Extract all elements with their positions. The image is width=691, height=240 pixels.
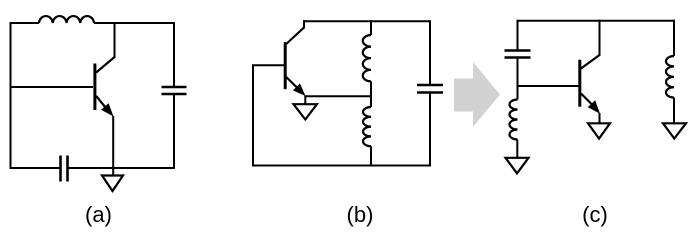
wire: circuit (a) left vertical xyxy=(10,23,12,168)
wire: circuit (b) right branch lower xyxy=(429,94,431,167)
capacitor C1 xyxy=(162,87,187,94)
wire: circuit (b) right branch upper xyxy=(429,20,431,84)
capacitor C2 xyxy=(61,156,68,182)
wire: circuit (c) left branch middle lead xyxy=(517,59,519,100)
inductor L3 (bottom half) xyxy=(363,107,371,146)
wire: circuit (a) top-right segment xyxy=(94,22,175,24)
ground (c) right xyxy=(663,123,686,138)
wire: circuit (a) collector vertical xyxy=(114,22,116,58)
wire: circuit (c) top wire xyxy=(518,20,676,22)
transform arrow xyxy=(454,62,500,127)
wire: circuit (a) right branch lower xyxy=(173,95,175,169)
capacitor C3 xyxy=(417,85,443,93)
wire: circuit (c) base wire xyxy=(517,85,579,87)
wire: circuit (b) inductor branch upper lead xyxy=(370,20,372,35)
ground (b) xyxy=(294,104,318,119)
svg-text:(c): (c) xyxy=(582,202,608,227)
wire: circuit (a) base wire xyxy=(10,86,94,88)
transistor Q2 xyxy=(285,28,305,97)
ground (c) emitter xyxy=(588,123,610,138)
wire: circuit (b) base wire xyxy=(252,64,284,66)
capacitor C4 xyxy=(505,51,531,58)
wire: circuit (a) bottom-right segment xyxy=(68,167,175,169)
wire: circuit (a) right branch upper xyxy=(173,22,175,86)
transistor Q3 xyxy=(580,55,600,114)
transistor Q1 xyxy=(95,57,115,117)
wire: circuit (b) left vertical xyxy=(252,65,254,167)
wire: circuit (c) collector vertical xyxy=(599,20,601,56)
svg-text:(b): (b) xyxy=(347,202,374,227)
wire: circuit (b) collector elbow xyxy=(303,20,305,28)
inductor L4 xyxy=(510,100,518,140)
wire: circuit (b) inductor centre lead xyxy=(370,81,372,107)
wire: circuit (b) emitter to ground stub xyxy=(304,96,306,105)
wire: circuit (b) inductor lower lead xyxy=(370,146,372,166)
wire: circuit (c) emitter stub xyxy=(599,113,601,124)
wire: circuit (c) right branch lower lead xyxy=(673,98,675,124)
inductor L5 xyxy=(666,56,674,98)
inductor L1 xyxy=(39,16,94,23)
inductor L2 (top half) xyxy=(363,35,371,81)
wire: circuit (b) top wire xyxy=(303,20,431,22)
wire: circuit (a) emitter vertical xyxy=(112,116,114,176)
wire: circuit (a) bottom-left segment xyxy=(10,167,61,169)
wire: circuit (c) left branch upper lead xyxy=(517,20,519,50)
wire: circuit (c) right branch upper lead xyxy=(673,20,675,56)
wire: circuit (b) emitter tap wire xyxy=(305,95,372,97)
ground (c) left xyxy=(506,158,529,174)
svg-text:(a): (a) xyxy=(85,202,112,227)
ground (a) xyxy=(102,176,123,192)
wire: circuit (a) top-left segment xyxy=(10,22,40,24)
wire: circuit (b) bottom wire xyxy=(252,165,431,167)
wire: circuit (c) left branch lower lead xyxy=(516,140,518,159)
